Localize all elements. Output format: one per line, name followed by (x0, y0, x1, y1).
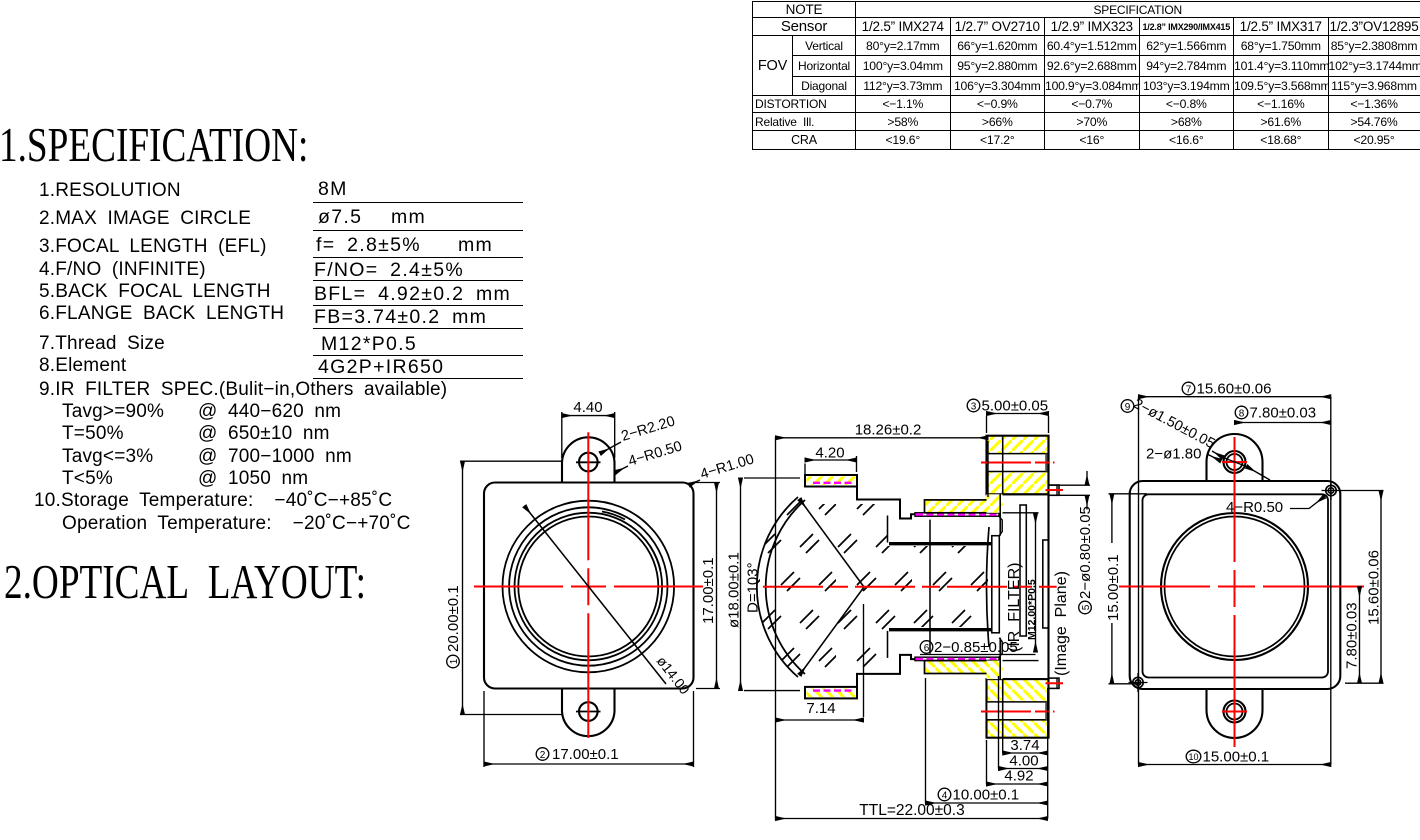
svg-text:4.92: 4.92 (1004, 768, 1033, 785)
bottom mounting ear (562, 688, 615, 737)
svg-text:TTL=22.00±0.3: TTL=22.00±0.3 (859, 802, 964, 819)
svg-text:2−ø0.80±0.05: 2−ø0.80±0.05 (1077, 506, 1094, 599)
dim TTL (776, 818, 1048, 820)
dim 4.20 (805, 456, 857, 474)
svg-text:15.60±0.06: 15.60±0.06 (1197, 381, 1272, 398)
sensor holder flange block (987, 436, 1049, 495)
diagonal diameter line (525, 506, 667, 684)
dim 7.14 (776, 604, 864, 720)
dim 17.00 right (696, 483, 720, 689)
spacer magenta strip (915, 513, 999, 516)
svg-text:17.00±0.1: 17.00±0.1 (552, 746, 619, 763)
leader 2-1.50 sloped (1121, 400, 1134, 413)
svg-text:15.00±0.1: 15.00±0.1 (1203, 749, 1270, 766)
lens spacer edge (887, 516, 889, 543)
top ear hole (579, 453, 598, 472)
barrel rear strip-end step (999, 516, 1002, 536)
front lens element arcs (757, 497, 805, 677)
middle lens element boundary (929, 520, 931, 654)
svg-text:(Image Plane): (Image Plane) (1053, 571, 1070, 676)
corner screw bottom-left (1129, 673, 1148, 692)
leader 4-R1.00 (689, 480, 700, 485)
outer body square (1130, 481, 1341, 689)
dim 4.40 top (562, 412, 615, 458)
svg-text:7.80±0.03: 7.80±0.03 (1344, 602, 1361, 669)
svg-text:7.80±0.03: 7.80±0.03 (1250, 405, 1317, 422)
svg-text:2−ø1.80: 2−ø1.80 (1146, 446, 1201, 463)
dim 7.80 top (1235, 422, 1331, 424)
mirror of half about optical axis (805, 630, 1059, 738)
svg-text:1: 1 (449, 658, 460, 664)
dim 7.80 right (1359, 587, 1361, 684)
svg-text:10.00±0.1: 10.00±0.1 (953, 787, 1020, 804)
dim 17.00 bottom (484, 691, 694, 767)
rear aperture circles (1161, 513, 1308, 660)
shared long extension lines (1139, 397, 1331, 765)
IR filter plate (1020, 505, 1026, 636)
svg-text:4.40: 4.40 (573, 399, 602, 416)
flange right edge (1047, 436, 1049, 738)
svg-text:7: 7 (1186, 385, 1192, 396)
dim 3.74 (1003, 680, 1048, 819)
svg-text:2: 2 (540, 750, 546, 761)
dim 4.00 (999, 676, 1048, 769)
holder body square (484, 483, 694, 689)
rear yellow band (925, 500, 1000, 513)
svg-text:4.20: 4.20 (815, 445, 844, 462)
leader 2-R2.20 (600, 442, 621, 454)
dim 18.26 (776, 438, 989, 497)
svg-text:4: 4 (942, 791, 948, 802)
svg-text:20.00±0.1: 20.00±0.1 (445, 585, 462, 652)
svg-text:(IR FILTER): (IR FILTER) (1006, 563, 1023, 652)
flange corner yellow extension (987, 494, 1003, 513)
red centerlines view3 (1115, 437, 1364, 747)
svg-text:7.14: 7.14 (806, 700, 835, 717)
dim 15.00 bottom (1139, 764, 1331, 766)
svg-text:8: 8 (1239, 409, 1245, 420)
svg-text:3: 3 (971, 402, 977, 413)
front retaining ring (805, 475, 857, 487)
dim 15.60 top (1139, 396, 1331, 398)
glass hatch fill (757, 497, 988, 677)
flange bore line (1002, 436, 1004, 495)
thread line (889, 542, 991, 545)
svg-text:18.26±0.2: 18.26±0.2 (855, 422, 922, 439)
top ear (1207, 434, 1263, 482)
red centerlines view1 (474, 432, 703, 738)
top mounting ear (562, 437, 615, 483)
barrel outer profile (857, 487, 915, 519)
barrel top half + mirrored bottom half (805, 436, 1059, 544)
svg-text:9: 9 (1125, 402, 1131, 413)
svg-text:M12.00*P0.5: M12.00*P0.5 (1026, 579, 1038, 640)
back plate (992, 536, 1000, 633)
svg-text:ø18.00±0.1: ø18.00±0.1 (726, 552, 743, 628)
spec values with underlines (318, 178, 348, 201)
svg-text:2−R2.20: 2−R2.20 (619, 413, 676, 444)
svg-text:2−ø1.50±0.05: 2−ø1.50±0.05 (1131, 396, 1218, 452)
svg-text:6: 6 (924, 643, 930, 654)
svg-text:5.00±0.05: 5.00±0.05 (982, 398, 1049, 415)
svg-text:15.60±0.06: 15.60±0.06 (1366, 550, 1383, 625)
corner screw top-right (1322, 481, 1341, 500)
dim diam 18.00 (741, 478, 801, 691)
svg-text:15.00±0.1: 15.00±0.1 (1105, 554, 1122, 621)
red centerlines view2 (763, 463, 1063, 712)
dim 10.00 (926, 678, 1048, 803)
svg-text:5: 5 (1081, 604, 1092, 610)
svg-text:3.74: 3.74 (1010, 737, 1039, 754)
lens barrel rings (503, 501, 675, 673)
svg-text:17.00±0.1: 17.00±0.1 (700, 557, 717, 624)
svg-text:10: 10 (1188, 752, 1198, 762)
field angle cone lines (800, 499, 865, 675)
dim 5.00 top (987, 414, 1049, 434)
dim 15.60 right (1340, 491, 1384, 684)
long extension line at front vertex (775, 437, 777, 820)
locating pin boss (1049, 485, 1060, 495)
dim 15.00 left (1109, 494, 1148, 684)
svg-text:4−R0.50: 4−R0.50 (626, 438, 683, 469)
dim 4.92 (987, 740, 1048, 784)
dim 2-0.85 grooves (920, 513, 1039, 661)
rear lens element surface (986, 527, 989, 647)
dim 2-0.80 pin (1050, 471, 1090, 510)
dim 20.00 left (460, 461, 563, 714)
svg-text:D=103°: D=103° (745, 562, 762, 613)
leader 4-R0.50 (615, 466, 628, 473)
bottom ear (1207, 688, 1263, 738)
svg-text:4−R0.50: 4−R0.50 (1226, 499, 1283, 516)
image plane plate (1043, 540, 1049, 628)
flange mounting hole (987, 454, 1047, 472)
bottom ear hole (579, 702, 598, 721)
inner ledge square (1143, 494, 1329, 677)
